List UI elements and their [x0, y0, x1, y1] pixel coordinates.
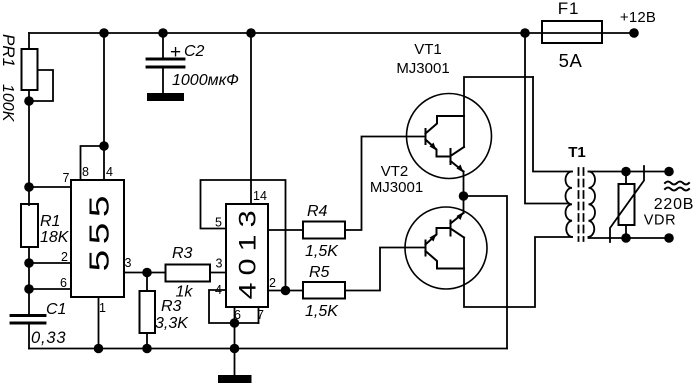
svg-text:5A: 5A [559, 50, 583, 71]
op-amp U1 timer 555 box [71, 180, 124, 297]
wire collector down to T1 primary top [533, 77, 572, 172]
svg-text:0,33: 0,33 [31, 329, 66, 347]
wire 555 pins 8,4 bracket [81, 146, 105, 180]
svg-text:7: 7 [63, 171, 70, 185]
wire secondary top [589, 171, 670, 173]
node pin1 ground junction [94, 344, 104, 354]
svg-text:1: 1 [99, 301, 106, 315]
node 555 supply junction [99, 141, 109, 151]
VT2 q1 emitter arrow [430, 234, 437, 242]
svg-text:R3: R3 [161, 298, 182, 315]
node pins 4,6,7 junction [230, 318, 240, 328]
svg-text:14: 14 [253, 189, 267, 203]
wire VT1 emitter [463, 172, 465, 197]
svg-text:1000мкФ: 1000мкФ [172, 72, 239, 89]
potentiometer PR1 [22, 33, 54, 101]
transistor VT1 darlington internals [426, 116, 465, 172]
svg-text:3,3K: 3,3K [155, 315, 189, 332]
svg-text:18K: 18K [40, 229, 70, 246]
wire pin 6 lead [234, 307, 236, 323]
node top rail junction A [99, 28, 109, 38]
svg-text:MJ3001: MJ3001 [396, 60, 449, 77]
svg-text:R4: R4 [307, 203, 328, 220]
resistor R3 1k [166, 265, 211, 282]
svg-text:T1: T1 [568, 144, 586, 161]
terminal output bottom [664, 233, 674, 243]
VT2 q2 emitter arrow [457, 212, 464, 220]
svg-text:1,5K: 1,5K [305, 303, 339, 320]
wire R4 to VT1 base [345, 137, 426, 231]
label AC squiggle [665, 182, 689, 191]
svg-text:1,5K: 1,5K [305, 243, 339, 260]
svg-text:100K: 100K [0, 84, 16, 123]
svg-text:MJ3001: MJ3001 [370, 179, 423, 196]
wire secondary bottom [589, 237, 670, 238]
wire bottom ground rail [29, 348, 507, 350]
node pin2 feedback junction [281, 286, 291, 296]
resistor R4 [303, 222, 345, 239]
wire VT2 emitter up to junction [463, 196, 465, 213]
terminal +12V [629, 28, 639, 38]
node pin2 junction [24, 258, 34, 268]
svg-text:+: + [170, 42, 181, 63]
wire 555 pin 2 [29, 262, 71, 264]
wire to ground rail [234, 323, 236, 349]
node fuse left junction [520, 28, 530, 38]
transformer T1 core [579, 168, 584, 241]
svg-text:7: 7 [257, 308, 264, 322]
svg-text:4013: 4013 [233, 203, 260, 299]
capacitor C1 [11, 316, 45, 324]
resistor R5 [303, 282, 345, 299]
wire center tap from +12 [525, 33, 568, 204]
node VDR bottom junction [621, 233, 631, 243]
node pin6 junction [24, 284, 34, 294]
wire below R1 [28, 247, 30, 315]
svg-text:4: 4 [215, 283, 222, 297]
transformer T1 primary winding [566, 172, 573, 238]
node pin3 junction [142, 268, 152, 278]
wire top +12V rail [29, 32, 525, 34]
wire 555 pin 6 [29, 288, 71, 290]
wire 555 pin 7 [29, 186, 71, 188]
wire R5 to VT2 base [345, 248, 426, 291]
svg-text:5: 5 [215, 216, 222, 230]
svg-text:C1: C1 [46, 301, 66, 318]
wire 4013 pin 1 to R4 [268, 229, 303, 231]
wire pin 7 lead [258, 307, 260, 323]
ground under C2 [147, 93, 184, 101]
svg-text:6: 6 [60, 276, 67, 290]
svg-text:VT2: VT2 [381, 163, 409, 180]
terminal output top [664, 167, 674, 177]
resistor R1 [21, 204, 38, 247]
svg-text:3: 3 [216, 257, 223, 271]
resistor R3 3,3K [146, 273, 148, 292]
VT1 q2 emitter arrow [457, 165, 464, 173]
svg-text:220В: 220В [654, 196, 695, 213]
transistor VT2 darlington internals [426, 213, 465, 269]
transistor VT2 circle [405, 207, 487, 289]
fuse F1 [525, 21, 634, 43]
node VDR top junction [621, 167, 631, 177]
svg-text:3: 3 [125, 256, 132, 270]
svg-text:555: 555 [84, 190, 115, 271]
wire ground stub [234, 349, 236, 376]
wire 4013 pin 4 to pins 6,7 [209, 290, 259, 323]
node ground rail junction [230, 344, 240, 354]
node top rail junction B [158, 28, 168, 38]
wire emitters to ground [464, 196, 508, 349]
svg-text:R5: R5 [309, 264, 330, 281]
svg-text:PR1: PR1 [0, 34, 18, 67]
svg-text:R3: R3 [172, 245, 193, 262]
wire 4013 pin 14 supply [250, 33, 252, 204]
node top rail junction C [246, 28, 256, 38]
svg-text:+12В: +12В [620, 9, 656, 26]
transistor VT1 circle [407, 94, 492, 179]
wire 555 pin 3 output [124, 272, 166, 274]
svg-text:2: 2 [269, 276, 276, 290]
VT1 q1 emitter arrow [430, 143, 437, 151]
node R3 ground junction [142, 344, 152, 354]
svg-text:C2: C2 [184, 43, 205, 60]
node pin7 junction [24, 182, 34, 192]
wire VT1 collector [464, 77, 533, 147]
capacitor C2 [162, 33, 164, 59]
svg-text:F1: F1 [558, 0, 579, 18]
node emitters junction [459, 191, 469, 201]
wire 4013 pin 5 feedback to pin 2 [201, 180, 286, 291]
varistor VDR [610, 166, 644, 242]
svg-text:2: 2 [61, 250, 68, 264]
svg-text:VDR: VDR [644, 213, 676, 229]
svg-text:8: 8 [82, 165, 89, 179]
svg-text:R1: R1 [40, 213, 60, 230]
ground symbol [218, 375, 252, 383]
wire left column [28, 101, 30, 205]
wire +12 feed to 555 [103, 33, 105, 180]
flip-flop U2 4013 box [226, 204, 268, 307]
node PR1 wiper junction [24, 96, 34, 106]
wire VT2 collector [464, 237, 572, 307]
svg-text:4: 4 [106, 165, 113, 179]
wire 555 pin 1 [98, 297, 100, 349]
svg-text:VT1: VT1 [414, 41, 442, 58]
wire R3 to 4013 pin 3 [210, 272, 226, 274]
transformer T1 secondary winding [589, 172, 596, 238]
wire 4013 pin 2 to R5 [268, 290, 303, 292]
